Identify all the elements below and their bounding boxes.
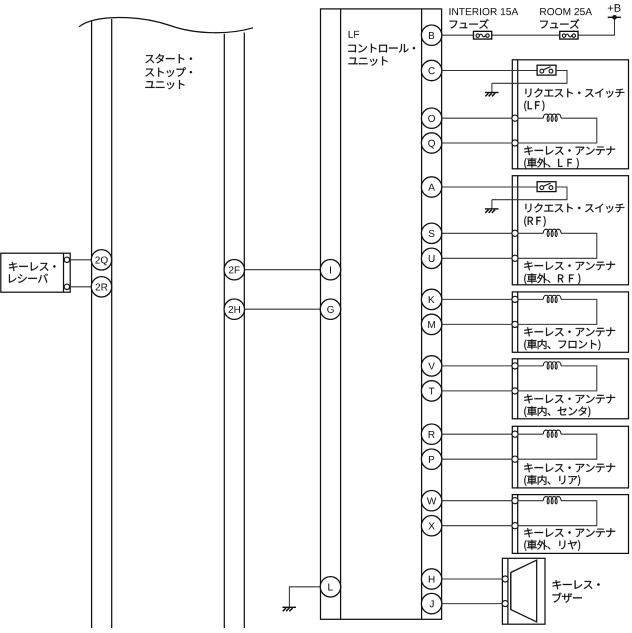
wire 2H to G [244,308,320,310]
wire U to antenna pin [442,257,512,259]
label request switch RF line 1 [526,203,625,213]
wire antenna LF loop [518,118,597,143]
terminal P [421,449,441,469]
wire J to buzzer [442,603,503,605]
start-stop unit wavy top edge [79,17,253,32]
terminal H [421,569,441,589]
terminal 2Q [91,250,111,270]
antenna box 3 (antenna front interior) pin 2 [512,321,518,327]
fuse ROOM 25A [560,31,578,39]
coil antenna RF [543,229,561,236]
ground for request switch LF [485,83,499,96]
label antenna center line 2 [524,406,590,417]
wire antenna top box 6 (antenna rear exterior) [518,500,543,502]
wire X to antenna pin [442,525,512,527]
box 4 (antenna center interior) inner connector line [517,359,519,419]
antenna box 4 (antenna center interior) pin 2 [512,388,518,394]
box 6 (antenna rear exterior) inner connector line [517,495,519,554]
box 3 (antenna front interior) inner connector line [517,292,519,352]
terminal W [421,491,441,511]
component box 5 (antenna rear interior) [512,426,628,488]
label ROOM 25A [540,8,592,15]
wire request switch RF return loop [492,187,567,200]
wire antenna RF top [518,232,543,234]
label keyless buzzer line 2 [552,593,581,603]
terminal M [421,314,441,334]
terminal S [421,223,441,243]
buzzer pin 2 [502,601,508,607]
label antenna front line 1 [524,327,615,336]
wire H to buzzer [442,578,503,580]
wire S to antenna pin [442,232,512,234]
wire request switch LF return loop [492,71,567,84]
LF control unit inner rail line right [421,9,423,619]
ground for LF control unit [282,599,296,611]
keyless receiver inner connector line [63,253,65,292]
label antenna LF line 1 [524,146,615,155]
wire R to antenna pin [442,433,512,435]
label antenna center line 1 [524,394,615,403]
wire antenna LF top [518,117,543,119]
terminal I [320,260,340,280]
wire 2F to I [244,269,320,271]
wire V to antenna pin [442,365,512,367]
terminal K [421,289,441,309]
label keyless receiver line 1 [9,262,56,271]
label keyless receiver line 2 [9,274,48,283]
wire O to antenna pin [442,117,512,119]
label antenna front line 2 [524,339,600,350]
terminal T [421,381,441,401]
receiver pin 1 [64,257,69,262]
label keyless buzzer line 1 [553,580,600,589]
label LF control unit line 2 [348,44,415,53]
wire antenna top box 5 (antenna rear interior) [518,433,543,435]
battery +B junction dot [612,15,617,20]
wire antenna loop box 5 (antenna rear interior) [518,434,597,459]
box 5 (antenna rear interior) inner connector line [517,426,519,488]
coil antenna box 5 (antenna rear interior) [543,430,561,437]
LF control unit inner rail line left [340,9,342,619]
antenna box 3 (antenna front interior) pin 1 [512,296,518,302]
wire antenna loop box 4 (antenna center interior) [518,366,597,391]
component box 3 (antenna front interior) [512,292,628,352]
ground for request switch RF [485,200,499,213]
label antenna RF line 2 [524,273,580,284]
label request switch LF line 2 [524,100,544,111]
antenna box 4 (antenna center interior) pin 1 [512,363,518,369]
coil antenna LF [543,114,561,121]
terminal R [421,424,441,444]
battery +B terminal bar [608,16,621,18]
wire antenna loop box 3 (antenna front interior) [518,299,597,324]
terminal A [421,177,441,197]
wire L to ground [289,587,320,599]
label start-stop unit line 2 [145,67,192,77]
wire antenna RF loop [518,233,597,258]
wire T to antenna pin [442,390,512,392]
label fuse 1 line 2 [450,19,489,29]
label INTERIOR 15A [449,8,518,15]
terminal 2F [224,260,244,280]
label start-stop unit line 1 [145,54,192,63]
antenna box 5 (antenna rear interior) pin 2 [512,456,518,462]
keyless receiver box [1,253,70,292]
wire A to request switch RF [442,186,537,188]
buzzer pin 1 [502,576,508,582]
box 2 inner connector line [517,176,519,285]
label LF control unit line 1 [349,31,360,38]
component box 2 (request switch RF / antenna RF) [512,176,628,285]
wire K to antenna pin [442,298,512,300]
wire B to +B [442,17,615,35]
terminal U [421,248,441,268]
antenna LF pin 1 [512,115,518,121]
start-stop unit right rail line 1 [223,34,225,628]
antenna LF pin 2 [512,140,518,146]
wire receiver to 2R [70,286,92,288]
LF control unit box outline [321,9,442,619]
label antenna RF line 1 [524,261,615,270]
box 1 inner connector line [517,60,519,169]
antenna RF pin 1 [512,230,518,236]
wire W to antenna pin [442,500,512,502]
fuse INTERIOR 15A [473,31,491,39]
start-stop unit left rail line 1 [91,22,93,629]
label antenna rear-int line 1 [524,463,615,472]
antenna box 6 (antenna rear exterior) pin 1 [512,498,518,504]
terminal J [421,593,441,613]
terminal G [320,299,340,319]
terminal X [421,516,441,536]
coil antenna box 6 (antenna rear exterior) [543,497,561,504]
request switch RF symbol [537,182,556,192]
terminal Q [421,133,441,153]
label fuse 2 line 2 [540,19,579,29]
terminal O [421,108,441,128]
start-stop unit right rail line 2 [243,33,245,629]
wire P to antenna pin [442,458,512,460]
antenna RF pin 2 [512,255,518,261]
terminal 2R [91,277,111,297]
request switch LF symbol [537,65,556,75]
buzzer box inner connector line [507,558,509,624]
coil antenna box 3 (antenna front interior) [543,295,561,302]
terminal L [320,577,340,597]
terminal 2H [224,299,244,319]
label request switch RF line 2 [524,216,545,227]
wire antenna loop box 6 (antenna rear exterior) [518,501,597,526]
label antenna rear-ext line 1 [524,528,615,537]
label antenna LF line 2 [524,158,578,169]
terminal V [421,356,441,376]
wire C to request switch LF [442,70,537,72]
receiver pin 2 [64,284,69,289]
wire Q to antenna pin [442,142,512,144]
label +B [608,4,621,12]
buzzer speaker symbol [511,560,537,622]
label LF control unit line 3 [348,56,387,65]
component box 4 (antenna center interior) [512,359,628,419]
start-stop unit left rail line 2 [111,19,113,628]
label antenna rear-int line 2 [524,475,580,486]
wire M to antenna pin [442,323,512,325]
antenna box 6 (antenna rear exterior) pin 2 [512,523,518,529]
label request switch LF line 1 [526,88,625,98]
component box 1 (request switch LF / antenna LF) [512,60,628,169]
coil antenna box 4 (antenna center interior) [543,362,561,369]
wire antenna top box 3 (antenna front interior) [518,298,543,300]
keyless buzzer box [502,558,545,624]
terminal B [421,25,441,45]
label antenna rear-ext line 2 [524,540,580,551]
wire receiver to 2Q [70,259,92,261]
label start-stop unit line 3 [145,80,184,89]
terminal C [421,60,441,80]
component box 6 (antenna rear exterior) [512,495,628,554]
antenna box 5 (antenna rear interior) pin 1 [512,431,518,437]
wire antenna top box 4 (antenna center interior) [518,365,543,367]
